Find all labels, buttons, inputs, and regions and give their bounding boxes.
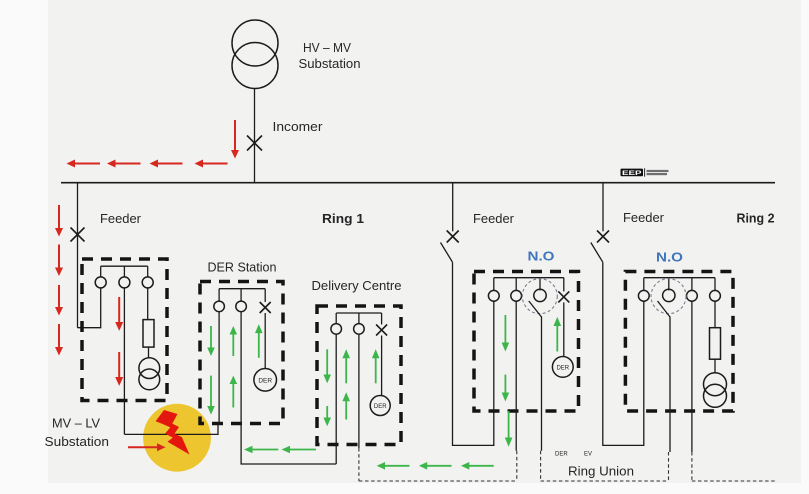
wire MV-LV middle branch down to fault junction (123, 288, 125, 435)
switch circles MV-LV (95, 277, 153, 288)
N.O station A dashed box (474, 272, 579, 412)
fuse MV-LV (143, 320, 154, 348)
wire N.O B col2 down to Ring Union (669, 317, 671, 453)
svg-text:MV – LV: MV – LV (52, 417, 101, 431)
Delivery Centre internal top busbar + stubs (336, 313, 381, 325)
svg-text:Ring 1: Ring 1 (322, 212, 364, 226)
wire feeder 2 vertical lower to U (453, 262, 494, 445)
svg-text:DER: DER (374, 404, 387, 410)
switch circles Delivery Centre (331, 324, 364, 335)
svg-text:DER: DER (556, 365, 569, 371)
svg-text:Ring Union: Ring Union (568, 464, 634, 479)
wire feeder 3 vertical upper (602, 183, 604, 231)
Delivery Centre dashed box (317, 306, 401, 445)
green arrows in dashed box A (377, 462, 494, 470)
switch X feeder 3 (597, 231, 609, 243)
switch X feeder 1 (71, 228, 85, 242)
svg-text:Ring 2: Ring 2 (737, 212, 775, 226)
wire N.O B col1 down (into U) (643, 301, 645, 411)
MV-LV internal top busbar (101, 265, 148, 267)
DER generator circle (N.O A) (552, 357, 573, 378)
wire MV-LV right branch to fuse (147, 288, 149, 320)
wire feeder 2 vertical upper (452, 183, 454, 231)
svg-text:EV: EV (584, 452, 592, 458)
N.O A internal top busbar + stubs (494, 278, 564, 292)
green arrows Delivery Centre (323, 349, 379, 426)
svg-text:N.O: N.O (528, 249, 555, 264)
svg-text:Feeder: Feeder (473, 212, 514, 226)
wire DC col2 down (becomes dashed) (358, 334, 360, 448)
DER generator circle (254, 369, 277, 392)
N.O dashed circle B (651, 279, 686, 314)
wire fuse to transformer (714, 359, 716, 373)
label HV-MV Substation (299, 40, 361, 71)
green arrows ring link left (upper pair) (244, 446, 316, 454)
svg-text:DER: DER (258, 377, 272, 384)
red arrow down beside incomer (231, 120, 239, 159)
wire DER X down to DER unit (264, 313, 266, 369)
wire feeder 1 vertical (77, 183, 79, 328)
wire fuse to transformer (148, 347, 150, 358)
thin dashed box C (right) (692, 452, 776, 481)
DER generator circle (Delivery Centre) (370, 396, 390, 416)
green arrows N.O A (502, 315, 561, 447)
feeder 2 open blade (441, 243, 453, 263)
wire: incomer vertical (254, 89, 256, 184)
svg-text:Incomer: Incomer (273, 119, 324, 134)
DER station dashed box (200, 282, 283, 424)
wire N.O B col4 down to fuse (714, 301, 716, 328)
switch circles N.O B (638, 289, 720, 301)
green arrows DER station (207, 324, 262, 415)
transformer T2 (MV-LV) (139, 358, 160, 390)
wire DC col1 down to ring link (335, 334, 337, 464)
DER station internal top busbar + stubs (219, 289, 265, 302)
feeder 3 open blade (591, 243, 603, 263)
svg-text:N.O: N.O (656, 250, 683, 265)
lightning bolt fault symbol (156, 410, 190, 455)
MV-LV substation dashed box (82, 259, 167, 401)
wire N.O B col3 down (691, 301, 693, 452)
switch X DER station (260, 302, 271, 313)
EEP logo (621, 168, 669, 177)
switch X feeder 2 (447, 231, 459, 243)
N.O station B dashed box (625, 272, 733, 412)
wire N.O A col1 down (into U) (493, 301, 495, 411)
svg-text:Feeder: Feeder (100, 212, 141, 226)
open blade under N.O circle B (658, 301, 671, 317)
wire DER col2 down to ring link (241, 312, 336, 464)
label MV-LV Substation (45, 417, 110, 450)
svg-text:HV – MV: HV – MV (303, 40, 351, 55)
fault circle (yellow) (143, 404, 211, 472)
svg-text:Substation: Substation (299, 56, 361, 71)
red arrows down inside MV-LV box (115, 297, 123, 386)
switch circles DER station (214, 301, 247, 312)
red arrows left along bus (x4) (67, 160, 228, 168)
transformer T1 (HV-MV substation) (232, 20, 278, 89)
N.O B internal top busbar + stubs (644, 278, 715, 291)
svg-text:Delivery Centre: Delivery Centre (312, 279, 402, 293)
switch circles N.O A (488, 289, 546, 301)
svg-text:EEP: EEP (622, 170, 643, 177)
wire feeder 1 entry into MV-LV box (78, 288, 101, 328)
svg-text:DER: DER (555, 452, 568, 458)
wire feeder 3 vertical lower to U (603, 262, 644, 445)
bus (main MV busbar) (61, 182, 775, 184)
thin dashed box A (below Delivery Centre) (359, 448, 517, 481)
red arrow right into fault (128, 443, 166, 451)
wire N.O A X down to DER (563, 302, 565, 356)
transformer T3 (N.O B) (704, 373, 727, 408)
switch X Delivery Centre (376, 325, 387, 336)
wire DER col1 down to fault junction (218, 312, 220, 424)
fuse N.O B (710, 328, 721, 360)
Ring Union dashed box (541, 451, 669, 481)
wire DC X down to DER unit (381, 336, 383, 396)
svg-text:Substation: Substation (45, 435, 110, 449)
wire fault link MV-LV to DER station (124, 424, 218, 435)
svg-text:DER Station: DER Station (208, 261, 277, 275)
red arrows down left column (x4) (55, 205, 63, 356)
N.O dashed circle A (522, 279, 557, 314)
stubs to switches (101, 266, 148, 277)
open blade under N.O circle (529, 301, 542, 317)
wire N.O A col2 down (515, 301, 517, 451)
svg-text:Feeder: Feeder (623, 211, 664, 225)
switch X N.O A (558, 291, 569, 302)
wire N.O A col3 down to Ring Union (541, 317, 543, 451)
switch X incomer (247, 136, 262, 151)
